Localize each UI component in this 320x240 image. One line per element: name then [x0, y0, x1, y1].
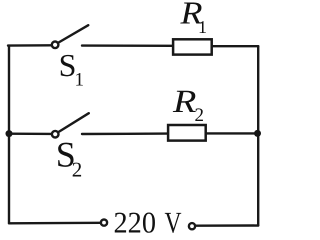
- wire: top branch, corner to switch S1: [8, 44, 52, 47]
- node: right junction dot: [254, 130, 261, 137]
- wire: middle branch, junction to switch S2: [9, 132, 52, 135]
- svg-text:2: 2: [195, 105, 205, 126]
- svg-text:R: R: [172, 84, 197, 120]
- wire: bottom left segment: [9, 222, 101, 225]
- label S2: [56, 135, 82, 182]
- svg-text:1: 1: [75, 69, 85, 90]
- terminal: source right circle: [189, 223, 195, 229]
- wire: bottom right segment: [195, 224, 258, 227]
- switch S2 lever: [59, 113, 89, 132]
- wire: resistor R2 to right junction: [206, 132, 258, 134]
- wire: right vertical: [257, 46, 259, 225]
- switch S1 lever: [59, 25, 89, 42]
- wire: top branch, switch S1 to resistor R1: [82, 44, 173, 47]
- label R1: [179, 0, 207, 37]
- label 220 V source voltage: [114, 206, 182, 239]
- wire: middle branch, switch S2 to resistor R2: [82, 132, 168, 135]
- resistor R1 body: [173, 39, 212, 54]
- label R2: [172, 84, 204, 126]
- wire: resistor R1 to right vertical: [212, 45, 258, 47]
- svg-text:V: V: [165, 206, 182, 237]
- terminal: source left circle: [101, 220, 107, 226]
- label S1: [59, 47, 84, 90]
- svg-text:1: 1: [198, 17, 207, 37]
- svg-text:220: 220: [114, 206, 157, 237]
- svg-text:2: 2: [72, 158, 83, 182]
- node: left junction dot: [6, 130, 13, 137]
- resistor R2 body: [168, 125, 206, 141]
- switch S2 pivot circle: [52, 131, 59, 138]
- switch S1 pivot circle: [52, 42, 59, 49]
- wire: left vertical: [8, 46, 10, 224]
